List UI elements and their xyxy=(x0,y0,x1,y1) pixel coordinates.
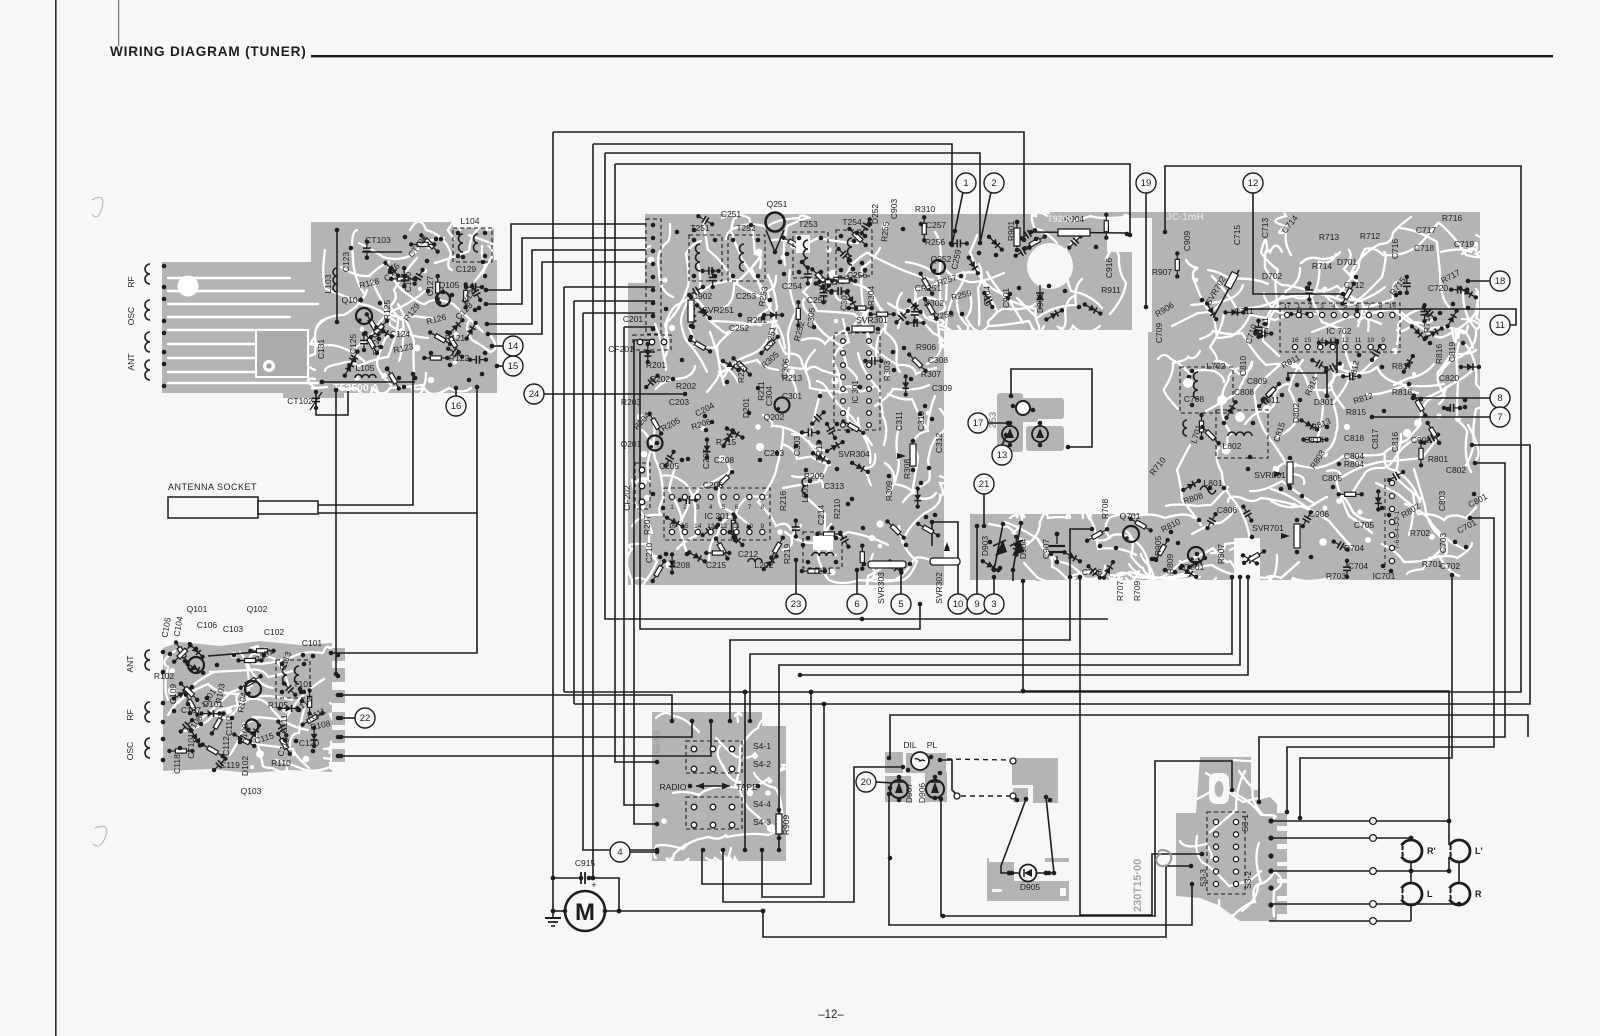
svg-text:Q251: Q251 xyxy=(767,199,788,209)
coil OSC (board B) xyxy=(145,738,150,758)
board A component cluster xyxy=(341,232,488,391)
svg-text:C203: C203 xyxy=(669,397,690,407)
component reference labels xyxy=(125,199,1489,892)
svg-text:Q101: Q101 xyxy=(187,604,208,614)
svg-text:D252: D252 xyxy=(870,204,880,225)
wire lead c12 xyxy=(1253,192,1343,294)
jack R xyxy=(1445,883,1482,905)
svg-text:C111: C111 xyxy=(279,714,289,733)
board D bottom white slot xyxy=(1234,538,1260,581)
svg-text:R105: R105 xyxy=(268,700,289,710)
svg-text:C112: C112 xyxy=(221,736,231,756)
svg-text:D201: D201 xyxy=(741,398,751,419)
svg-text:R110: R110 xyxy=(271,758,291,768)
svg-text:L': L' xyxy=(1475,846,1483,856)
wire bus 715 to DIL xyxy=(890,715,1528,758)
svg-text:R905: R905 xyxy=(1153,536,1163,557)
svg-text:T254: T254 xyxy=(842,217,862,227)
svg-text:16: 16 xyxy=(451,401,462,412)
svg-text:5: 5 xyxy=(898,599,903,610)
svg-text:Q701: Q701 xyxy=(1120,511,1141,521)
wire B out1 xyxy=(341,695,672,721)
wire lead c15 xyxy=(497,365,503,367)
svg-text:R816: R816 xyxy=(1434,344,1444,365)
circled callout 3 xyxy=(984,594,1004,614)
L103 coil xyxy=(333,268,337,292)
svg-text:S3-3: S3-3 xyxy=(1198,869,1208,887)
circled callout 24 xyxy=(524,384,544,404)
svg-text:11: 11 xyxy=(733,523,740,530)
svg-text:C817: C817 xyxy=(1370,429,1380,450)
svg-text:R210: R210 xyxy=(832,499,842,520)
svg-text:T201: T201 xyxy=(812,566,832,576)
svg-text:C129: C129 xyxy=(456,264,477,274)
svg-text:IC 702: IC 702 xyxy=(1326,326,1351,336)
jack L' xyxy=(1445,840,1483,862)
wire jack v4 xyxy=(1410,905,1412,921)
S3 left pads xyxy=(1200,852,1205,857)
board B texture xyxy=(164,636,342,772)
svg-text:RF: RF xyxy=(125,709,135,720)
circled callout 19 xyxy=(1136,173,1156,193)
transistor Q201 xyxy=(648,436,663,451)
board B component cluster xyxy=(167,639,325,774)
svg-text:C715: C715 xyxy=(1232,225,1242,246)
svg-text:C803: C803 xyxy=(1437,491,1447,512)
svg-text:23: 23 xyxy=(791,599,802,610)
wire channel v5b long xyxy=(563,287,565,692)
svg-text:Q102: Q102 xyxy=(247,604,268,614)
wire channel v8b xyxy=(624,327,657,805)
svg-text:C301: C301 xyxy=(782,391,803,401)
small gray island D902/D301 inside cutout xyxy=(997,393,1023,452)
svg-text:1: 1 xyxy=(670,504,674,511)
svg-text:C251: C251 xyxy=(721,209,742,219)
svg-text:JC·1mH: JC·1mH xyxy=(1166,212,1204,223)
svg-text:Q104: Q104 xyxy=(342,295,363,305)
svg-text:R308: R308 xyxy=(902,459,912,480)
R909 resistor xyxy=(776,814,782,834)
svg-text:M: M xyxy=(575,899,595,926)
extra solder pads board D xyxy=(988,275,1477,575)
svg-text:OSC: OSC xyxy=(125,742,135,760)
svg-text:R713: R713 xyxy=(1319,232,1340,242)
svg-text:C207: C207 xyxy=(701,449,711,470)
svg-text:C214: C214 xyxy=(816,505,826,526)
svg-text:C311: C311 xyxy=(894,411,904,431)
svg-text:C720: C720 xyxy=(1428,283,1449,293)
wire lead c18 xyxy=(1468,280,1490,282)
wire lead c14 xyxy=(492,345,503,347)
svg-text:3: 3 xyxy=(1320,303,1324,310)
svg-text:15: 15 xyxy=(508,361,519,372)
svg-text:C716: C716 xyxy=(1390,239,1400,260)
svg-text:C915: C915 xyxy=(575,858,596,868)
circled callout 21 xyxy=(974,474,994,494)
wire S4 bottom 1 xyxy=(702,692,811,884)
svg-text:C123: C123 xyxy=(341,252,351,273)
svg-text:R207: R207 xyxy=(642,515,652,536)
svg-text:C101: C101 xyxy=(302,638,323,648)
svg-text:L801: L801 xyxy=(1204,478,1223,488)
svg-text:C916: C916 xyxy=(1104,258,1114,279)
svg-text:R911: R911 xyxy=(1101,285,1121,295)
CF202 filter xyxy=(635,463,650,509)
svg-text:2: 2 xyxy=(1309,303,1313,310)
wire D906 elbow xyxy=(940,760,957,795)
svg-text:R102: R102 xyxy=(154,671,175,681)
circled callout 12 xyxy=(1243,173,1263,193)
svg-text:R818: R818 xyxy=(1392,387,1413,397)
circled callout 1 xyxy=(956,173,976,193)
svg-text:5: 5 xyxy=(722,504,726,511)
svg-text:15: 15 xyxy=(681,523,689,530)
diode D903 symbol xyxy=(995,540,1007,556)
svg-text:C118: C118 xyxy=(172,754,182,774)
diode D905 xyxy=(1020,865,1037,882)
svg-text:C110: C110 xyxy=(224,716,234,736)
wire C101 riser xyxy=(331,387,477,653)
svg-text:19: 19 xyxy=(1141,178,1152,189)
svg-text:L104: L104 xyxy=(461,216,480,226)
svg-text:16: 16 xyxy=(668,523,676,530)
circled callout 7 xyxy=(1490,407,1510,427)
svg-text:Q801: Q801 xyxy=(1184,562,1205,572)
wire lead c4 xyxy=(630,851,657,853)
L701 coil xyxy=(1183,420,1187,436)
board C texture xyxy=(627,213,1486,590)
transformer T101 xyxy=(276,660,310,698)
diode D906 xyxy=(926,780,944,798)
svg-text:R708: R708 xyxy=(1100,499,1110,520)
wire antenna socket 1 xyxy=(318,374,413,505)
transformer T253 xyxy=(793,232,828,278)
svg-text:R309: R309 xyxy=(884,481,894,502)
wire jack h3 xyxy=(1269,870,1449,872)
svg-text:R211: R211 xyxy=(756,381,766,401)
wire motor right xyxy=(605,910,763,912)
svg-text:C212: C212 xyxy=(738,549,759,559)
wire antenna socket 2 xyxy=(318,512,477,514)
svg-text:C106: C106 xyxy=(197,620,218,630)
wire bus long 692 + right rect xyxy=(564,166,1521,692)
svg-text:D101: D101 xyxy=(203,699,224,709)
SVR801 slider xyxy=(1287,462,1293,484)
wire A-col 4 xyxy=(488,262,646,334)
svg-text:C904: C904 xyxy=(982,286,992,307)
circled callout 13 xyxy=(992,445,1012,465)
svg-text:21: 21 xyxy=(979,479,990,490)
svg-text:D901: D901 xyxy=(1035,293,1045,314)
svg-text:13: 13 xyxy=(707,523,715,530)
wire lead c22 xyxy=(341,717,355,719)
board D component cluster xyxy=(1175,251,1481,579)
coil ANT (board A) xyxy=(145,332,150,352)
wire channel v9b xyxy=(634,340,657,824)
wire Q251 tri2 xyxy=(775,230,784,252)
circled callout 18 xyxy=(1490,271,1510,291)
svg-text:C717: C717 xyxy=(1416,225,1437,235)
wire channel v2 xyxy=(592,144,594,878)
wire jack v5 xyxy=(1458,904,1460,905)
circled callout 9 xyxy=(967,594,987,614)
svg-text:C256: C256 xyxy=(847,270,868,280)
svg-text:C205: C205 xyxy=(659,461,680,471)
svg-text:2: 2 xyxy=(683,504,687,511)
svg-text:C313: C313 xyxy=(824,481,845,491)
trimmer CT102 symbol xyxy=(312,390,320,410)
svg-text:C808: C808 xyxy=(1234,387,1255,397)
svg-text:C210: C210 xyxy=(644,543,654,564)
svg-text:R815: R815 xyxy=(1346,407,1367,417)
board C component cluster upper xyxy=(685,212,939,329)
svg-text:12: 12 xyxy=(720,523,728,530)
svg-text:IC701: IC701 xyxy=(1373,571,1396,581)
wire channel v6b long xyxy=(573,301,575,704)
transformer T252 xyxy=(728,235,765,281)
svg-text:C819: C819 xyxy=(1447,342,1457,363)
svg-text:R307: R307 xyxy=(921,369,942,379)
small connector patch right of DIL xyxy=(1012,758,1058,803)
svg-text:R817: R817 xyxy=(1392,361,1413,371)
svg-text:D802: D802 xyxy=(1291,403,1301,424)
svg-text:CF201: CF201 xyxy=(608,344,634,354)
wire jack h2 xyxy=(1269,837,1411,839)
svg-text:S4-2: S4-2 xyxy=(753,759,771,769)
transistor Q103 body xyxy=(246,720,259,733)
wire channel v4 to S4 xyxy=(615,164,657,762)
svg-text:C809: C809 xyxy=(1247,376,1268,386)
svg-text:R202: R202 xyxy=(676,381,697,391)
svg-text:WIRING DIAGRAM (TUNER): WIRING DIAGRAM (TUNER) xyxy=(110,44,307,59)
wire lead c11 xyxy=(1246,309,1516,325)
svg-text:14: 14 xyxy=(1317,337,1325,344)
circled callout 15 xyxy=(503,356,523,376)
svg-text:12: 12 xyxy=(1342,337,1350,344)
wire island 2 xyxy=(1288,373,1327,396)
svg-text:D904: D904 xyxy=(1018,539,1028,560)
svg-text:C305: C305 xyxy=(805,307,817,328)
svg-text:S4-3: S4-3 xyxy=(753,817,771,827)
svg-text:C704: C704 xyxy=(1348,561,1369,571)
svg-text:C253: C253 xyxy=(736,291,757,301)
svg-text:17: 17 xyxy=(973,418,984,429)
svg-text:L: L xyxy=(1427,889,1433,899)
wire B out3 xyxy=(341,721,711,756)
page left edge scan line xyxy=(55,0,57,1036)
svg-text:C206: C206 xyxy=(703,480,724,490)
svg-text:C303: C303 xyxy=(792,436,802,457)
svg-text:OSC: OSC xyxy=(126,307,136,325)
svg-text:9: 9 xyxy=(760,523,764,530)
wire channel v6 xyxy=(574,300,655,302)
wire channel v5 xyxy=(564,286,655,288)
open terminal circles (output row) xyxy=(1370,818,1377,825)
svg-text:S4-4: S4-4 xyxy=(753,799,771,809)
wire lead c9 xyxy=(976,526,978,594)
jack R' xyxy=(1397,840,1436,862)
svg-text:CT101: CT101 xyxy=(186,733,196,759)
wire S3 feed 2 xyxy=(1287,518,1494,812)
svg-text:14: 14 xyxy=(508,341,519,352)
wire channel v1 xyxy=(552,132,554,911)
svg-text:11: 11 xyxy=(1355,337,1362,344)
D905 patches xyxy=(987,858,1069,901)
extra solder pads board B xyxy=(168,647,316,754)
main board pad column (left edge of board C) xyxy=(646,219,661,334)
svg-text:R203: R203 xyxy=(621,397,642,407)
svg-text:8: 8 xyxy=(1379,303,1383,310)
svg-text:4: 4 xyxy=(617,847,622,858)
diode D901 symbol xyxy=(1036,293,1044,300)
svg-text:14: 14 xyxy=(694,523,702,530)
svg-text:S4-1: S4-1 xyxy=(753,741,771,751)
PCB board B outline (AM tuner unit, lower-left) xyxy=(163,641,345,773)
board C mounting hole (white circle) xyxy=(1027,243,1073,289)
wire ground stem xyxy=(552,911,554,918)
svg-text:L702: L702 xyxy=(1207,361,1226,371)
svg-text:T251: T251 xyxy=(690,223,710,233)
coil RF (board B) xyxy=(145,702,150,722)
circled callout 2 xyxy=(984,173,1004,193)
transistor Q101 xyxy=(188,657,204,673)
board A can shield square xyxy=(256,330,308,377)
IC701 pin column xyxy=(1384,478,1386,570)
coil RF (board A) xyxy=(145,264,150,284)
page top-left crease mark xyxy=(118,0,119,46)
extra solder pads board A xyxy=(349,235,488,390)
svg-text:C213: C213 xyxy=(764,448,785,458)
wire bus mid3 xyxy=(750,577,1232,721)
svg-text:5: 5 xyxy=(1344,303,1348,310)
svg-text:CT102: CT102 xyxy=(287,396,313,406)
SVR251 slider xyxy=(688,300,694,322)
svg-text:R702: R702 xyxy=(1410,528,1431,538)
svg-text:20: 20 xyxy=(861,777,872,788)
svg-text:C201: C201 xyxy=(623,314,644,324)
svg-text:C130: C130 xyxy=(403,272,413,293)
svg-text:12: 12 xyxy=(1248,178,1259,189)
coil OSC (board A) xyxy=(145,300,150,320)
wire L103 link xyxy=(336,230,338,322)
svg-text:R125: R125 xyxy=(382,300,392,321)
svg-text:C907: C907 xyxy=(1041,539,1051,560)
svg-text:C307: C307 xyxy=(838,290,850,311)
board C component cluster lower xyxy=(642,334,941,584)
svg-text:8: 8 xyxy=(760,504,764,511)
wire D905 diag2 xyxy=(1037,797,1054,873)
svg-text:TAPE: TAPE xyxy=(736,782,758,792)
svg-text:RF: RF xyxy=(126,276,136,287)
svg-text:T101: T101 xyxy=(293,679,313,689)
PCB board G (output connector board, 230T15-00) xyxy=(1176,757,1287,921)
svg-text:6: 6 xyxy=(1355,303,1359,310)
svg-text:1: 1 xyxy=(1297,303,1301,310)
svg-text:R215: R215 xyxy=(716,437,737,447)
DIL/PL dial lamp board patches xyxy=(885,752,903,773)
diode D904 symbol xyxy=(1012,540,1024,556)
svg-text:D302: D302 xyxy=(924,298,945,308)
wire CT102 loop xyxy=(316,390,348,415)
svg-text:9: 9 xyxy=(1381,337,1385,344)
cap C915 symbol xyxy=(580,872,582,884)
svg-text:R201: R201 xyxy=(646,360,667,370)
svg-text:Q201: Q201 xyxy=(621,439,642,449)
svg-text:6: 6 xyxy=(735,504,739,511)
svg-text:C719: C719 xyxy=(1454,239,1475,249)
wire lead c23 xyxy=(795,560,797,594)
wire C915 left xyxy=(553,877,581,879)
CF201 filter xyxy=(633,335,671,350)
jack L xyxy=(1397,883,1433,905)
circled callout 11 xyxy=(1490,315,1510,335)
S3 connector pad grid xyxy=(1207,812,1245,894)
wire B out2 xyxy=(341,721,692,737)
wire bus mid5 xyxy=(800,577,1248,675)
svg-text:C127: C127 xyxy=(425,276,435,297)
svg-text:C310: C310 xyxy=(916,411,926,432)
wire lead c3 xyxy=(993,577,995,594)
wire lead c10 xyxy=(932,522,958,594)
svg-text:C706: C706 xyxy=(1082,567,1103,577)
svg-text:C806: C806 xyxy=(1217,505,1238,515)
svg-text:C308: C308 xyxy=(928,355,949,365)
svg-text:C814: C814 xyxy=(1304,435,1325,445)
board A mounting hole xyxy=(178,276,199,297)
svg-text:R: R xyxy=(1475,889,1482,899)
ground symbol near motor xyxy=(545,917,561,919)
circled callout 6 xyxy=(847,594,867,614)
SVR702 slider body xyxy=(1225,272,1239,289)
svg-text:R901: R901 xyxy=(1006,221,1016,242)
svg-text:L202: L202 xyxy=(755,560,774,570)
IC702 pin rows xyxy=(1280,303,1400,352)
wire C915 right xyxy=(589,878,619,911)
wire lead c13 xyxy=(1002,437,1006,445)
svg-text:C902: C902 xyxy=(692,291,713,301)
svg-text:C703: C703 xyxy=(1438,533,1448,554)
svg-text:–12–: –12– xyxy=(818,1009,844,1021)
svg-text:C254: C254 xyxy=(782,281,803,291)
S4 board pads xyxy=(670,719,675,724)
svg-text:R909: R909 xyxy=(781,815,791,836)
svg-text:CT103: CT103 xyxy=(365,235,391,245)
S4-1/S4-2 contact block xyxy=(686,741,742,773)
circled callout 10 xyxy=(948,594,968,614)
svg-text:R707: R707 xyxy=(1115,581,1125,602)
SVR302 slider xyxy=(930,558,960,565)
wire S4 bottom 4 xyxy=(762,704,824,897)
svg-text:R716: R716 xyxy=(1442,213,1463,223)
svg-text:ANTENNA SOCKET: ANTENNA SOCKET xyxy=(168,482,257,492)
wire lead c1 xyxy=(952,192,963,245)
svg-text:C713: C713 xyxy=(1260,218,1270,239)
wire lead c17 xyxy=(988,422,1008,424)
svg-text:6: 6 xyxy=(854,599,859,610)
resistor R904 body xyxy=(1058,229,1090,236)
svg-text:D701: D701 xyxy=(1337,257,1358,267)
svg-text:Q252: Q252 xyxy=(931,254,952,264)
svg-text:C712: C712 xyxy=(1344,280,1365,290)
svg-text:R208: R208 xyxy=(670,560,691,570)
svg-text:18: 18 xyxy=(1389,303,1397,310)
svg-text:15: 15 xyxy=(1304,337,1312,344)
wire A-col 3 xyxy=(487,250,646,324)
svg-text:3: 3 xyxy=(696,504,700,511)
svg-text:R212: R212 xyxy=(814,441,824,462)
wire island 3 xyxy=(1336,341,1338,373)
svg-text:C711: C711 xyxy=(1234,306,1254,316)
